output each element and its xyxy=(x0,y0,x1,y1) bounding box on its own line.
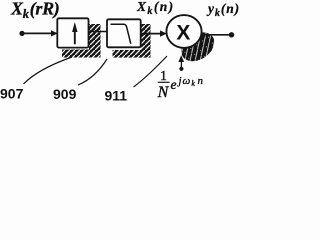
svg-text:e: e xyxy=(171,77,177,92)
multiplier circle 911 xyxy=(166,15,201,48)
svg-text:909: 909 xyxy=(53,86,77,102)
up-arrow symbol inside box 907 xyxy=(74,30,76,44)
wire: filter to multiplier with arrowhead xyxy=(141,33,161,35)
filter box 909 xyxy=(107,19,141,47)
shadow of box 909 (right strip) xyxy=(141,24,150,55)
wire between upsampler box and filter box xyxy=(89,31,108,33)
leader line for 911 xyxy=(134,56,168,87)
svg-text:X: X xyxy=(176,21,190,44)
node: output dot xyxy=(229,32,234,37)
shadow of box 907 (bottom strip) xyxy=(62,50,101,58)
svg-text:907: 907 xyxy=(0,85,24,101)
lowpass response curve inside box 909 xyxy=(111,24,131,44)
shadow of box 909 (bottom strip) xyxy=(113,50,151,58)
wire: input line with arrowhead into upsampler xyxy=(22,32,52,34)
svg-text:jωkn: jωkn xyxy=(177,75,204,88)
node: input dot xyxy=(19,31,24,36)
shadow of multiplier circle xyxy=(176,26,220,67)
wire: output line xyxy=(201,34,232,36)
shadow of box 907 (right strip) xyxy=(89,24,101,53)
leader line for 909 xyxy=(78,59,107,85)
leader line for 907 xyxy=(24,57,73,84)
svg-text:911: 911 xyxy=(105,88,128,104)
svg-text:Xk(rR): Xk(rR) xyxy=(10,0,59,21)
svg-text:N: N xyxy=(157,84,170,101)
upsampler box 907 xyxy=(57,18,88,47)
arrow from exponential label up into multiplier xyxy=(179,67,183,71)
